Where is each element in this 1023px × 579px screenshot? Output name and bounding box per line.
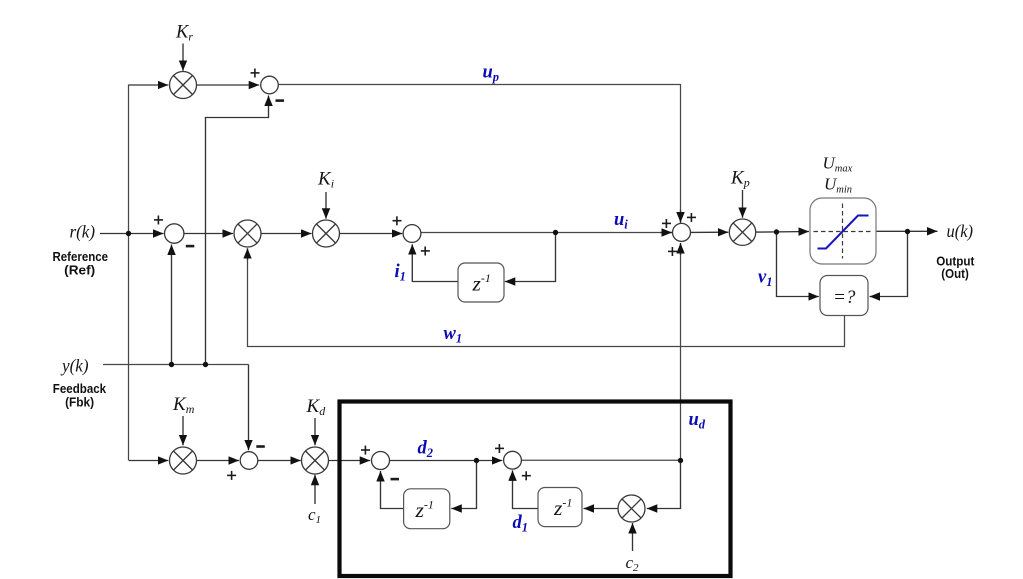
svg-text:ui: ui	[614, 210, 628, 232]
svg-text:Umax: Umax	[823, 154, 853, 175]
svg-text:i1: i1	[395, 262, 406, 284]
svg-text:c2: c2	[626, 553, 640, 574]
svg-text:Ki: Ki	[317, 169, 334, 191]
svg-text:(Fbk): (Fbk)	[65, 394, 94, 409]
svg-text:Kp: Kp	[730, 168, 750, 190]
svg-text:d1: d1	[513, 513, 529, 535]
svg-text:v1: v1	[758, 268, 772, 290]
svg-text:c1: c1	[308, 505, 321, 526]
svg-text:ud: ud	[689, 410, 706, 432]
svg-text:u(k): u(k)	[947, 221, 974, 241]
svg-text:Kr: Kr	[175, 23, 193, 44]
svg-text:Kd: Kd	[306, 396, 327, 418]
svg-text:(Out): (Out)	[941, 266, 969, 281]
svg-text:r(k): r(k)	[70, 222, 96, 242]
svg-text:d2: d2	[418, 439, 434, 461]
svg-text:(Ref): (Ref)	[64, 262, 95, 277]
svg-text:Km: Km	[172, 394, 195, 416]
svg-text:=?: =?	[833, 287, 856, 308]
svg-text:Umin: Umin	[824, 175, 852, 196]
svg-text:y(k): y(k)	[60, 356, 88, 377]
svg-text:up: up	[483, 63, 500, 85]
svg-text:w1: w1	[444, 324, 463, 346]
